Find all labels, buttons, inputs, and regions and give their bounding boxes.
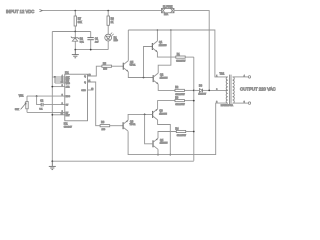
svg-text:Q2: Q2: [160, 74, 164, 77]
potentiometer VR1: [15, 94, 28, 112]
svg-text:OSC: OSC: [81, 90, 86, 92]
resistor R3: [175, 96, 194, 106]
wire Q4 collector down: [157, 149, 159, 155]
svg-text:2: 2: [216, 89, 217, 91]
svg-text:CT: CT: [66, 105, 69, 107]
svg-text:IC1: IC1: [65, 72, 69, 75]
wire Q6 emitter to Q3/Q4 bases: [128, 114, 153, 144]
wire VR1 bottom to IC pin 2: [27, 111, 65, 113]
svg-text:1K: 1K: [111, 22, 114, 24]
svg-text:Q3: Q3: [159, 110, 163, 113]
svg-text:0R22/5W: 0R22/5W: [175, 104, 185, 106]
svg-text:D3: D3: [199, 84, 203, 87]
svg-text:R7: R7: [78, 18, 82, 21]
svg-text:Q: Q: [84, 82, 86, 84]
wire collector bottom line to transformer: [128, 103, 228, 155]
svg-text:C2: C2: [40, 99, 44, 102]
IC1 pin number and name labels: [61, 75, 94, 117]
svg-text:2N3055: 2N3055: [160, 77, 168, 79]
capacitor C2: [37, 96, 65, 111]
svg-text:VR1: VR1: [19, 94, 24, 97]
wire secondary top to terminal: [233, 76, 249, 78]
svg-text:R2: R2: [175, 86, 179, 89]
svg-text:Q4: Q4: [160, 139, 164, 142]
transistor Q1: [152, 41, 167, 52]
wire Q3 collector riser down: [158, 120, 172, 156]
zener diode D2: [71, 32, 85, 50]
wire Q2 collector riser: [158, 29, 172, 73]
capacitor C1: [87, 32, 99, 50]
ground symbol upper: [72, 50, 79, 58]
svg-text:D1: D1: [114, 36, 118, 39]
svg-text:1N4007: 1N4007: [198, 93, 206, 95]
svg-text:D2: D2: [80, 38, 84, 41]
wire Q1 emitter to R1: [157, 52, 175, 57]
wire ground line: [74, 49, 108, 51]
op-amp U1 IC1 CD4047 body: [64, 72, 88, 129]
port INPUT 12 VDC: [6, 9, 43, 14]
wire emitter bus: [193, 57, 195, 161]
wire top rail from fuse to right corner, down to center-tap node: [174, 11, 209, 91]
resistor R8: [107, 10, 114, 34]
svg-text:R6: R6: [101, 121, 105, 124]
transistor Q6: [123, 120, 136, 131]
svg-text:33K: 33K: [78, 22, 83, 24]
wire Q1 collector up: [157, 29, 159, 41]
wire regulated node B horizontal: [52, 31, 90, 33]
svg-text:RET: RET: [66, 115, 71, 117]
resistor R1: [176, 53, 194, 63]
wire bottom ground rail: [51, 160, 193, 162]
svg-text:R3: R3: [175, 96, 179, 99]
svg-text:8: 8: [62, 85, 63, 87]
svg-text:IC1: IC1: [64, 122, 68, 125]
transistor Q5: [123, 61, 136, 72]
wire left rail vertical: [51, 32, 53, 162]
svg-text:2N3055: 2N3055: [160, 143, 168, 145]
resistor R6: [100, 121, 123, 131]
wire Q2 emitter to R2: [158, 84, 175, 90]
svg-text:TIP41: TIP41: [130, 124, 137, 126]
svg-text:INPUT 12 VDC: INPUT 12 VDC: [6, 9, 34, 14]
terminal output top: [248, 76, 250, 78]
resistor R5: [102, 62, 123, 70]
svg-text:Q6: Q6: [130, 120, 134, 123]
LED D1: [105, 33, 118, 50]
diode D3 on center-tap line: [194, 84, 209, 95]
wire Q4 emitter to R4: [158, 132, 176, 139]
terminal output bottom: [248, 102, 250, 104]
svg-text:+TR: +TR: [66, 87, 70, 89]
svg-text:0.1: 0.1: [39, 109, 43, 111]
svg-text:0R22/5W: 0R22/5W: [177, 135, 187, 137]
wire IC pin10 to R5: [88, 66, 102, 76]
svg-text:14: 14: [61, 82, 63, 84]
svg-text:0R22/5W: 0R22/5W: [176, 61, 186, 63]
wire center tap to transformer: [208, 90, 227, 92]
svg-text:LED: LED: [114, 40, 119, 42]
wire collector top line to transformer: [128, 30, 228, 77]
svg-text:MAIN12FSA: MAIN12FSA: [221, 104, 234, 107]
svg-text:VDD: VDD: [66, 83, 71, 85]
wire IC pin11 to R6: [88, 82, 101, 126]
wire VR1 top to IC pin 3: [27, 95, 65, 97]
svg-text:Q1: Q1: [159, 41, 163, 44]
svg-text:5V1: 5V1: [80, 42, 85, 44]
svg-text:2N3055: 2N3055: [159, 45, 167, 47]
svg-text:12: 12: [61, 113, 63, 115]
wire secondary bottom to terminal: [233, 102, 249, 104]
svg-text:TR1: TR1: [220, 72, 225, 75]
svg-text:C1: C1: [95, 38, 99, 41]
svg-text:OUTPUT 220 VAC: OUTPUT 220 VAC: [240, 87, 276, 92]
svg-text:R4: R4: [175, 127, 179, 130]
IC1 left pin wires: [51, 76, 64, 116]
svg-text:2N3055: 2N3055: [159, 113, 167, 115]
ground symbol lower: [49, 161, 56, 169]
svg-text:R1: R1: [177, 53, 181, 56]
svg-text:100: 100: [103, 69, 107, 71]
transistor Q3: [153, 109, 168, 120]
svg-text:Q5: Q5: [130, 61, 134, 64]
wire Q3 emitter to R3: [158, 101, 175, 109]
wire Q5 emitter to Q1/Q2 bases: [128, 47, 153, 79]
svg-text:RCC: RCC: [66, 96, 71, 98]
IC1 pin 13 stub: [88, 89, 94, 91]
svg-text:CD4047: CD4047: [64, 126, 73, 128]
transistor Q4: [153, 138, 168, 149]
svg-text:10A: 10A: [164, 13, 169, 16]
svg-text:F1 FUSE: F1 FUSE: [163, 6, 173, 8]
wire Q5 collector up to node: [127, 30, 129, 61]
svg-text:100: 100: [102, 129, 106, 131]
wire top rail from input to fuse: [43, 10, 162, 12]
resistor R2: [175, 86, 194, 96]
svg-text:Q: Q: [84, 76, 86, 78]
svg-text:4n7: 4n7: [95, 42, 99, 44]
resistor R4: [175, 127, 193, 137]
fuse F1: [162, 6, 175, 16]
svg-text:3: 3: [216, 102, 217, 104]
transformer TR1: [216, 72, 244, 107]
svg-text:1: 1: [216, 75, 217, 77]
svg-text:R8: R8: [111, 18, 115, 21]
svg-text:50K: 50K: [15, 109, 19, 111]
svg-text:TIP41: TIP41: [130, 65, 137, 67]
transistor Q2: [153, 73, 168, 84]
resistor R7: [74, 10, 82, 32]
